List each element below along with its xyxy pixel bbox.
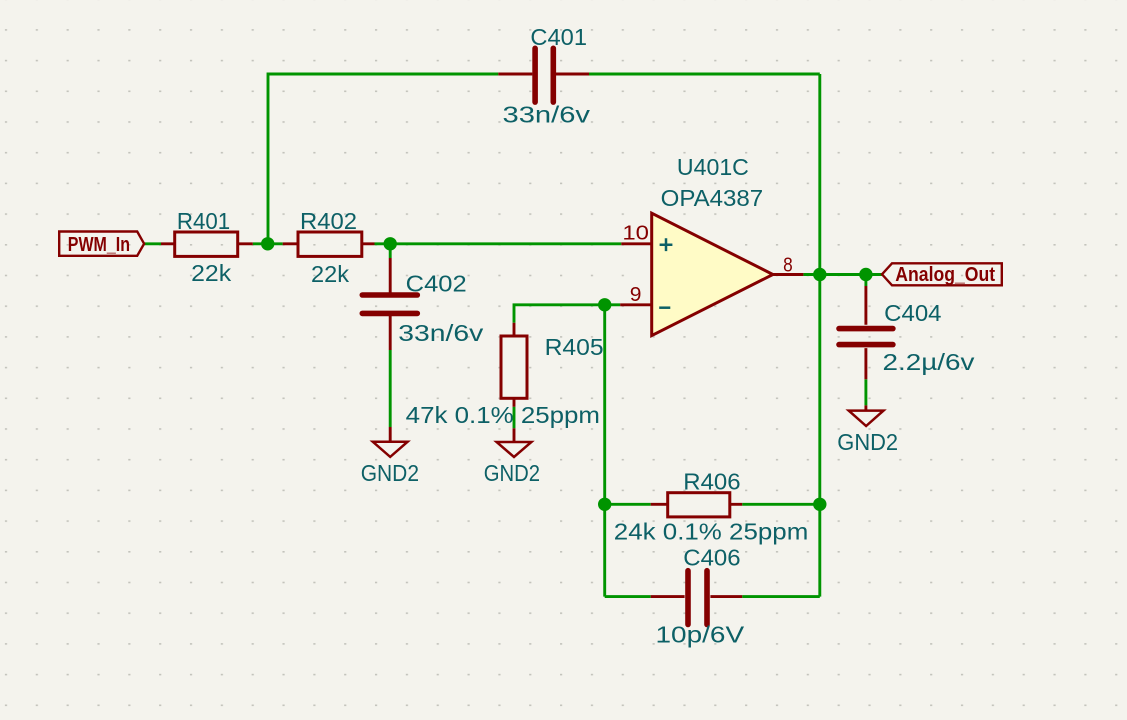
pin number 9 (630, 284, 642, 306)
svg-text:OPA4387: OPA4387 (661, 185, 764, 211)
svg-text:C404: C404 (884, 300, 941, 326)
svg-text:C406: C406 (683, 545, 740, 571)
label R401 reference (177, 208, 230, 234)
wire PWM_In to R401 (144, 242, 161, 245)
capacitor C406 (651, 571, 743, 625)
svg-text:24k 0.1% 25ppm: 24k 0.1% 25ppm (614, 519, 809, 545)
label R405 reference (545, 334, 604, 360)
label R402 value 22k (311, 261, 349, 287)
label C402 reference (406, 271, 467, 297)
label GND2 under C404 (837, 429, 898, 455)
label R401 value 22k (191, 260, 231, 286)
svg-text:GND2: GND2 (837, 429, 898, 455)
capacitor C401 (498, 48, 589, 102)
label R402 reference (300, 208, 357, 234)
svg-text:10p/6V: 10p/6V (656, 622, 745, 648)
wire R406 left (605, 503, 651, 506)
node junction R401/R402 (261, 237, 274, 250)
wire left vertical to R406/C406 (603, 305, 606, 597)
svg-text:Analog_Out: Analog_Out (895, 264, 995, 286)
label R405 value 47k 0.1% 25ppm (406, 402, 600, 428)
label R406 reference (683, 469, 740, 495)
svg-text:22k: 22k (191, 260, 231, 286)
resistor R402 (283, 232, 375, 256)
wire pin 9 stub connection (605, 303, 621, 306)
node junction output / feedback (813, 268, 826, 281)
svg-text:2.2µ/6v: 2.2µ/6v (883, 349, 975, 375)
svg-text:9: 9 (630, 284, 642, 306)
svg-text:R406: R406 (683, 469, 740, 495)
svg-text:33n/6v: 33n/6v (398, 320, 483, 346)
label U401C reference (677, 154, 749, 180)
resistor R405 (501, 323, 527, 407)
resistor R401 (161, 232, 253, 256)
svg-text:33n/6v: 33n/6v (503, 102, 591, 128)
label C404 value 2.2u/6v (883, 349, 975, 375)
pin number 10 (622, 222, 649, 244)
wire right vertical feedback (818, 74, 821, 597)
label U401C value OPA4387 (661, 185, 764, 211)
svg-text:C402: C402 (406, 271, 467, 297)
ground GND2 under C402 (373, 427, 408, 457)
wire Analog_Out node down to C404 (864, 275, 867, 287)
svg-text:8: 8 (783, 254, 793, 276)
wire C404 to ground (864, 379, 867, 405)
wire bottom left to C406 (605, 595, 651, 598)
wire op-amp output to Analog_Out (803, 273, 882, 276)
svg-text:R405: R405 (545, 334, 604, 360)
ground GND2 under R405 (497, 428, 532, 457)
svg-text:C401: C401 (530, 24, 587, 50)
node junction R402/C402 (384, 237, 397, 250)
wire R401 to R402 (253, 242, 283, 245)
svg-text:47k 0.1% 25ppm: 47k 0.1% 25ppm (406, 402, 600, 428)
label C404 reference (884, 300, 941, 326)
label C402 value 33n/6v (398, 320, 483, 346)
label C406 reference (683, 545, 740, 571)
svg-text:R401: R401 (177, 208, 230, 234)
capacitor C402 (362, 258, 417, 350)
label C406 value 10p/6V (656, 622, 745, 648)
wire top feedback left segment (268, 74, 498, 244)
wire node to C402 (389, 244, 392, 258)
output label Analog_Out (882, 263, 1002, 286)
wire top feedback right segment (589, 73, 820, 76)
node junction R406 left (598, 498, 611, 511)
node junction pin 9 / R405 (598, 298, 611, 311)
svg-text:GND2: GND2 (361, 460, 419, 486)
ground GND2 under C404 (849, 405, 884, 426)
label C401 value 33n/6v (503, 102, 591, 128)
svg-text:GND2: GND2 (484, 460, 540, 486)
label GND2 under R405 (484, 460, 540, 486)
wire C406 to right vertical (742, 595, 820, 598)
resistor R406 (651, 493, 743, 517)
wire C402 to ground (389, 350, 392, 427)
label R406 value 24k 0.1% 25ppm (614, 519, 809, 545)
capacitor C404 (839, 286, 893, 379)
op-amp U401C (620, 213, 803, 335)
wire R405 top to pin 9 node (514, 305, 605, 323)
wire R405 bottom to ground (513, 407, 516, 429)
wire R402 to op-amp pin 10 (375, 242, 622, 245)
input label PWM_In (59, 232, 144, 256)
svg-text:10: 10 (622, 222, 649, 244)
label C401 reference (530, 24, 587, 50)
svg-text:PWM_In: PWM_In (68, 234, 130, 256)
svg-text:R402: R402 (300, 208, 357, 234)
svg-text:22k: 22k (311, 261, 349, 287)
node junction Analog_Out / C404 (859, 268, 872, 281)
svg-text:U401C: U401C (677, 154, 749, 180)
node junction R406 right (813, 498, 826, 511)
pin number 8 (783, 254, 793, 276)
wire R406 right (742, 503, 820, 506)
label GND2 under C402 (361, 460, 419, 486)
